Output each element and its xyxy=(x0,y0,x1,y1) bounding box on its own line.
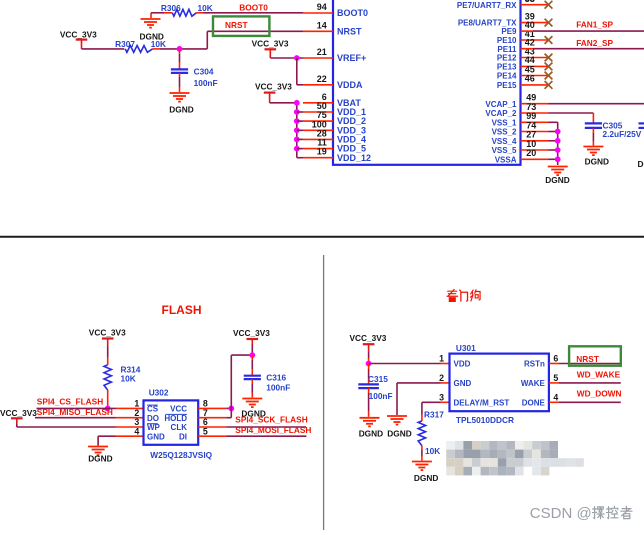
junction on VSS bus y=159.3 xyxy=(555,156,561,162)
svg-text:100nF: 100nF xyxy=(194,78,218,88)
vertical section divider xyxy=(323,255,325,530)
svg-text:VCC_3V3: VCC_3V3 xyxy=(60,29,97,39)
svg-text:VSS_5: VSS_5 xyxy=(492,146,517,155)
wire top VCC to C316 xyxy=(231,354,252,356)
junction on VSS bus y=131.5 xyxy=(555,129,561,135)
ground DGND below C316 xyxy=(241,399,265,419)
U301 pin 2 GND xyxy=(439,373,471,388)
wire VDD bus to pin y=148.6 xyxy=(297,148,303,150)
mosaic censored block xyxy=(446,441,584,475)
ground DGND below U302 pin4 xyxy=(88,447,113,464)
wire R307 to junction xyxy=(153,48,208,50)
MCU pin 100 VDD_3 xyxy=(303,119,366,135)
wire FAN1_SP xyxy=(533,30,644,32)
svg-text:100nF: 100nF xyxy=(266,382,290,392)
svg-text:VDDA: VDDA xyxy=(337,80,363,90)
svg-text:VCC_3V3: VCC_3V3 xyxy=(252,38,289,48)
svg-text:NRST: NRST xyxy=(225,20,248,30)
ground DGND below C304 xyxy=(169,93,193,115)
U302 pin 7 HOLD xyxy=(164,408,208,423)
svg-text:R317: R317 xyxy=(424,409,444,419)
svg-text:C315: C315 xyxy=(368,374,388,384)
U302 pin 2 DO xyxy=(134,408,159,423)
MCU pin 99 VSS_1 xyxy=(492,111,558,127)
net label NRST (watchdog) xyxy=(576,354,599,364)
junction VREF+ xyxy=(294,55,300,61)
svg-text:VDD: VDD xyxy=(454,360,471,369)
junction C316 xyxy=(249,352,255,358)
junction on VDD bus y=148.6 xyxy=(294,146,300,152)
svg-text:C316: C316 xyxy=(266,373,286,383)
MCU pin 22 VDDA xyxy=(303,74,363,90)
svg-text:BOOT0: BOOT0 xyxy=(239,3,268,13)
U302 pin 8 VCC xyxy=(170,399,208,414)
power port VCC_3V3 (U301) xyxy=(350,333,387,364)
svg-text:100nF: 100nF xyxy=(369,391,393,401)
svg-text:PE7/UART7_RX: PE7/UART7_RX xyxy=(457,1,517,10)
svg-text:19: 19 xyxy=(317,147,327,157)
wire R306 left xyxy=(151,12,172,14)
net label FAN2_SP xyxy=(576,38,613,48)
svg-text:GND: GND xyxy=(147,432,165,441)
svg-text:CS: CS xyxy=(147,405,159,414)
power port VCC_3V3 (top-left) xyxy=(60,29,97,49)
wire VDDA xyxy=(297,58,303,85)
U301 pin 5 WAKE xyxy=(521,373,559,388)
wire R314 to CS net xyxy=(107,390,109,408)
svg-text:VCAP_1: VCAP_1 xyxy=(485,100,517,109)
svg-text:VCC_3V3: VCC_3V3 xyxy=(350,333,387,343)
svg-text:R307: R307 xyxy=(115,39,135,49)
svg-text:WAKE: WAKE xyxy=(521,379,546,388)
net label SPI4_MISO_FLASH xyxy=(37,407,113,417)
svg-text:W25Q128JVSIQ: W25Q128JVSIQ xyxy=(150,450,212,460)
junction VDD/C315 xyxy=(366,361,372,367)
svg-text:DGND: DGND xyxy=(387,429,411,439)
wire VDD bus to pin y=130.3 xyxy=(297,129,303,131)
junction on VDD bus y=121.1 xyxy=(294,118,300,124)
svg-text:FLASH: FLASH xyxy=(162,303,202,317)
MCU pin 28 VDD_4 xyxy=(303,128,366,144)
resistor R314 xyxy=(104,364,141,390)
svg-text:SPI4_MOSI_FLASH: SPI4_MOSI_FLASH xyxy=(235,425,311,435)
svg-text:VSS_2: VSS_2 xyxy=(492,128,517,137)
svg-text:49: 49 xyxy=(526,93,536,103)
MCU pin 74 VSS_2 xyxy=(492,120,558,136)
svg-text:VSSA: VSSA xyxy=(495,155,517,164)
wire VCC to VDD bus xyxy=(270,102,297,104)
svg-text:DGND: DGND xyxy=(169,105,193,115)
MCU pin 50 VDD_1 xyxy=(303,101,366,117)
svg-text:BOOT0: BOOT0 xyxy=(337,8,368,18)
svg-text:R306: R306 xyxy=(161,3,181,13)
svg-text:10K: 10K xyxy=(425,446,440,456)
svg-text:SPI4_SCK_FLASH: SPI4_SCK_FLASH xyxy=(235,415,307,425)
net label WD_WAKE xyxy=(577,370,621,380)
svg-text:10K: 10K xyxy=(121,374,136,384)
svg-text:U301: U301 xyxy=(456,343,476,353)
capacitor C316 xyxy=(244,355,261,397)
MCU pin 21 VREF+ xyxy=(303,47,366,63)
wire VDD bus to pin y=121.1 xyxy=(297,120,303,122)
U302 pin 6 CLK xyxy=(171,417,208,432)
svg-text:VSS_1: VSS_1 xyxy=(492,118,517,127)
svg-text:14: 14 xyxy=(317,20,327,30)
wire GND pin 4 xyxy=(98,436,143,445)
svg-text:DGND: DGND xyxy=(88,454,112,464)
ground DGND below VSS bus xyxy=(545,167,569,186)
MCU pin 38 PE7/UART7_RX with no-connect X xyxy=(457,0,552,10)
svg-text:10K: 10K xyxy=(151,39,166,49)
svg-text:DGND: DGND xyxy=(638,159,644,169)
MCU pin 11 VDD_5 xyxy=(303,138,366,154)
wire VDD bus to pin y=139.4 xyxy=(297,138,303,140)
section title FLASH xyxy=(162,303,202,317)
ground DGND below U301 pin2 xyxy=(387,416,412,439)
MCU pin 49 VCAP_1 xyxy=(485,93,548,109)
resistor R306 xyxy=(161,3,213,16)
MCU pin 10 VSS_5 xyxy=(492,139,558,155)
svg-text:4: 4 xyxy=(553,392,558,402)
svg-text:22: 22 xyxy=(317,74,327,84)
junction on VDD bus y=139.4 xyxy=(294,137,300,143)
wire SPI4_CS_FLASH xyxy=(37,407,144,409)
wire SPI4_MOSI_FLASH xyxy=(198,435,306,437)
svg-text:U302: U302 xyxy=(149,387,169,397)
MCU pin 20 VSSA xyxy=(495,148,558,164)
resistor R307 xyxy=(115,39,166,52)
U301 pin 4 DONE xyxy=(522,392,559,407)
svg-text:C304: C304 xyxy=(194,67,214,77)
wire VCAP_1 to right edge xyxy=(549,103,644,105)
power port VCC_3V3 (VDD) xyxy=(255,81,292,102)
wire VDD bus vertical xyxy=(296,103,298,158)
MCU pin 40 PE9 xyxy=(501,20,534,36)
U301 pin 6 RSTn xyxy=(524,354,558,369)
wire VREF+ xyxy=(270,57,303,59)
svg-text:FAN2_SP: FAN2_SP xyxy=(576,38,613,48)
svg-text:WP: WP xyxy=(147,423,161,432)
svg-text:VSS_4: VSS_4 xyxy=(492,137,517,146)
svg-text:PE13: PE13 xyxy=(497,63,517,72)
MCU pin 42 PE11 xyxy=(497,38,534,54)
net label SPI4_CS_FLASH xyxy=(37,397,103,407)
MCU pin 73 VCAP_2 xyxy=(485,102,548,118)
ground DGND below C315 xyxy=(359,418,383,439)
svg-text:VCC: VCC xyxy=(170,405,187,414)
junction R314/CS xyxy=(105,406,111,412)
svg-text:PE12: PE12 xyxy=(497,54,517,63)
svg-text:SPI4_MISO_FLASH: SPI4_MISO_FLASH xyxy=(37,407,113,417)
svg-text:PE11: PE11 xyxy=(497,45,517,54)
junction on VDD bus y=112.0 xyxy=(294,109,300,115)
junction on VDD bus y=102.8 xyxy=(294,100,300,106)
svg-text:RSTn: RSTn xyxy=(524,360,545,369)
U301 part number xyxy=(456,415,514,425)
svg-text:94: 94 xyxy=(317,2,327,12)
svg-text:DGND: DGND xyxy=(414,473,438,483)
svg-text:DGND: DGND xyxy=(359,429,383,439)
svg-text:PE14: PE14 xyxy=(497,72,517,81)
svg-text:5: 5 xyxy=(203,426,208,436)
svg-text:20: 20 xyxy=(526,148,536,158)
ground DGND for R306 xyxy=(140,13,164,42)
wire VCC_3V3 to R307 xyxy=(82,48,125,50)
svg-text:WD_DOWN: WD_DOWN xyxy=(577,388,622,398)
svg-text:DI: DI xyxy=(179,432,187,441)
wire U301 pin3 DELAY xyxy=(422,402,450,414)
svg-text:NRST: NRST xyxy=(576,354,599,364)
svg-text:FAN1_SP: FAN1_SP xyxy=(576,19,613,29)
resistor R317 xyxy=(418,409,444,445)
wire U301 pin2 GND xyxy=(397,383,450,415)
svg-text:DO: DO xyxy=(147,414,159,423)
svg-text:HOLD: HOLD xyxy=(164,414,187,423)
net label WD_DOWN xyxy=(577,388,622,398)
svg-text:WD_WAKE: WD_WAKE xyxy=(577,370,621,380)
svg-text:6: 6 xyxy=(553,354,558,364)
C304 value labels xyxy=(194,67,218,89)
net label BOOT0 xyxy=(239,3,268,13)
net label NRST (top) xyxy=(225,20,248,30)
svg-text:PE9: PE9 xyxy=(501,27,517,36)
U302 pin 1 CS xyxy=(134,399,158,414)
MCU pin 41 PE10 with no-connect X xyxy=(497,29,552,45)
MCU pin 75 VDD_2 xyxy=(303,110,366,126)
svg-text:VCAP_2: VCAP_2 xyxy=(485,109,517,118)
wire U301 pin1 VDD xyxy=(369,363,450,365)
junction NRST/C304 xyxy=(177,46,183,52)
wire R317 to ground xyxy=(421,446,423,461)
wire VCAP_2 to C305 xyxy=(549,113,594,123)
wire vertical VCC (U302) xyxy=(230,355,232,418)
power port VCC_3V3 (C316) xyxy=(233,328,270,348)
svg-text:GND: GND xyxy=(454,379,472,388)
clipped pin number 38 above PE7 xyxy=(525,0,535,4)
power port VCC_3V3 (WP pin) xyxy=(0,408,37,427)
svg-text:21: 21 xyxy=(317,47,327,57)
wire SPI4_SCK_FLASH xyxy=(198,426,306,428)
partial capacitor at right edge xyxy=(639,123,644,145)
svg-text:VCC_3V3: VCC_3V3 xyxy=(89,327,126,337)
svg-text:10K: 10K xyxy=(198,3,213,13)
green highlight box NRST (top) xyxy=(213,16,269,36)
ground DGND below R317 xyxy=(412,462,438,483)
svg-text:2.2uF/25V: 2.2uF/25V xyxy=(603,129,642,139)
MCU pin 46 PE15 with no-connect X xyxy=(497,74,552,90)
junction on VDD bus y=130.3 xyxy=(294,127,300,133)
svg-text:SPI4_CS_FLASH: SPI4_CS_FLASH xyxy=(37,397,103,407)
watermark CSDN @username xyxy=(530,505,632,522)
C316 value labels xyxy=(266,373,290,393)
MCU pin 94 BOOT0 xyxy=(303,2,368,18)
svg-text:VCC_3V3: VCC_3V3 xyxy=(0,408,37,418)
wire WP pin 3 xyxy=(17,426,144,428)
U301 pin 3 DELAY/M_RST xyxy=(439,392,509,407)
U302 pin 5 DI xyxy=(179,426,208,441)
flash chip U302 body xyxy=(144,387,199,444)
junction pin8/vertical xyxy=(228,406,234,412)
svg-text:42: 42 xyxy=(525,38,535,48)
horizontal section divider xyxy=(0,236,644,238)
MCU pin 43 PE12 with no-connect X xyxy=(497,46,552,62)
svg-text:38: 38 xyxy=(525,0,535,4)
svg-text:DELAY/M_RST: DELAY/M_RST xyxy=(454,398,510,407)
wire BOOT0 xyxy=(196,12,303,14)
section title watchdog (Chinese) xyxy=(447,289,480,301)
svg-text:2: 2 xyxy=(439,373,444,383)
R317 value 10K xyxy=(425,446,440,456)
C315 value labels xyxy=(368,374,393,401)
U302 part number xyxy=(150,450,212,460)
svg-text:4: 4 xyxy=(134,426,139,436)
watchdog chip U301 body xyxy=(450,343,549,411)
svg-text:40: 40 xyxy=(525,20,535,30)
net label SPI4_MOSI_FLASH xyxy=(235,425,311,435)
power port VCC_3V3 (VREF+) xyxy=(252,38,289,58)
capacitor C305 xyxy=(585,123,602,145)
svg-text:VCC_3V3: VCC_3V3 xyxy=(255,81,292,91)
wire WD_WAKE xyxy=(549,382,621,384)
wire FAN2_SP xyxy=(533,48,644,50)
capacitor C315 xyxy=(358,364,379,417)
svg-text:VCC_3V3: VCC_3V3 xyxy=(233,328,270,338)
svg-text:3: 3 xyxy=(439,392,444,402)
MCU pin 19 VDD_12 xyxy=(303,147,371,163)
svg-text:5: 5 xyxy=(553,373,558,383)
wire NRST (watchdog) xyxy=(549,363,621,365)
svg-text:PE10: PE10 xyxy=(497,36,517,45)
wire VCC to R314 xyxy=(107,347,109,365)
U302 pin 3 WP xyxy=(134,417,160,432)
svg-text:PE15: PE15 xyxy=(497,81,517,90)
capacitor C304 xyxy=(171,49,188,92)
wire VCC down to junction xyxy=(251,348,253,355)
MCU pin 27 VSS_4 xyxy=(492,130,558,146)
net label SPI4_SCK_FLASH xyxy=(235,415,307,425)
junction on VSS bus y=150.0 xyxy=(555,147,561,153)
net label FAN1_SP xyxy=(576,19,613,29)
MCU U300 body xyxy=(333,0,521,165)
svg-text:VREF+: VREF+ xyxy=(337,53,366,63)
power port VCC_3V3 (R314) xyxy=(89,327,126,346)
svg-text:DONE: DONE xyxy=(522,398,546,407)
MCU pin 44 PE13 with no-connect X xyxy=(497,55,552,71)
C305 value labels xyxy=(603,120,642,139)
wire VDD bus to pin y=112.0 xyxy=(297,111,303,113)
wire VDD bus to pin y=157.7 xyxy=(297,157,303,159)
MCU pin 6 VBAT xyxy=(303,92,361,108)
junction on VSS bus y=140.8 xyxy=(555,138,561,144)
svg-text:46: 46 xyxy=(525,74,535,84)
svg-text:VDD_12: VDD_12 xyxy=(337,153,371,163)
ground DGND below C305 xyxy=(583,147,609,167)
svg-text:TPL5010DDCR: TPL5010DDCR xyxy=(456,415,514,425)
wire U302 pin8 VCC xyxy=(198,407,231,409)
MCU pin 39 PE8/UART7_TX with no-connect X xyxy=(458,11,553,27)
U301 pin 1 VDD xyxy=(439,354,471,369)
MCU pin 45 PE14 with no-connect X xyxy=(497,64,552,80)
green highlight box NRST (watchdog) xyxy=(569,346,621,365)
wire VSS bus vertical xyxy=(557,122,559,165)
svg-text:NRST: NRST xyxy=(337,26,362,36)
svg-text:DGND: DGND xyxy=(585,156,609,166)
MCU pin 14 NRST xyxy=(303,20,362,36)
svg-text:CLK: CLK xyxy=(171,423,188,432)
U302 pin 4 GND xyxy=(134,426,165,441)
svg-text:CSDN @: CSDN @ xyxy=(530,505,592,522)
wire U302 pin7 HOLD xyxy=(198,417,231,419)
partial DGND label right edge xyxy=(638,159,644,169)
wire SPI4_MISO_FLASH xyxy=(35,417,144,419)
wire NRST xyxy=(207,31,303,49)
svg-text:DGND: DGND xyxy=(545,175,569,185)
wire WD_DOWN xyxy=(549,401,621,403)
svg-text:1: 1 xyxy=(439,354,444,364)
